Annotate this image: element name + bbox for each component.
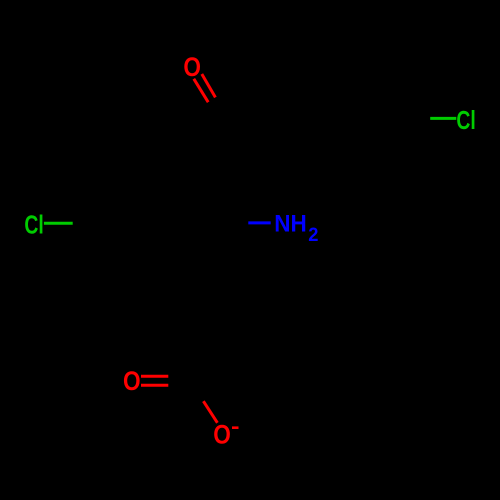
bond C-N amine, blue half [248,221,270,224]
bond C=O ketone double, red half line 1 [194,79,208,102]
svg-text:2: 2 [308,224,318,246]
bond C-Cl top-right, green half [430,117,456,120]
bond C=O carboxylate double, red half line top [141,375,168,378]
charge minus superscript on O(-) [232,426,239,429]
svg-text:O: O [213,419,231,449]
bond C=O carboxylate double, red half line bottom [141,384,168,387]
bond C=O ketone double, red half line 2 [202,74,216,97]
svg-text:Cl: Cl [456,105,475,135]
svg-text:NH: NH [274,211,307,238]
svg-text:O: O [123,366,141,396]
bond C-Cl left, green half [44,222,73,225]
bond C-O(-) carboxylate, red half diagonal [203,401,217,423]
svg-text:Cl: Cl [24,210,43,240]
svg-text:O: O [183,52,201,82]
